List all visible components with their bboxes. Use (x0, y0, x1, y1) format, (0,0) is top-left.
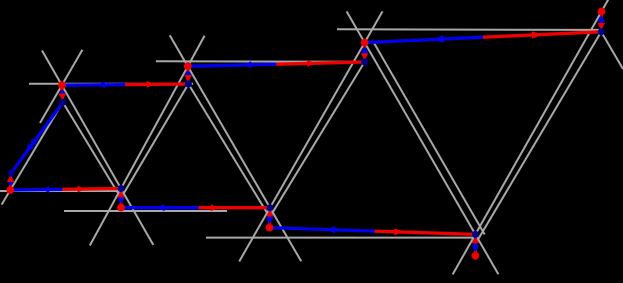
red arrowhead node2 (points at blue dot) (59, 93, 67, 100)
red arrow shaft node2 (red dot toward blue dot) (61, 85, 64, 93)
gray horizontal line node1-node3 (base of triangle 1-2-3) (0, 190, 121, 192)
node1 blue dot (8, 170, 15, 177)
red arrow shaft node7 (red dot toward blue dot) (474, 243, 477, 256)
wire edge node4-node6 red half (near end) (276, 62, 364, 64)
gray horizontal line node5-node7 (base of triangle 5-6-7) (206, 237, 478, 239)
node1 red dot (6, 186, 14, 194)
blue arrowhead node8 (points at red dot) (598, 15, 606, 22)
blue arrowhead on edge node1-node2 diagonal (points back) (25, 144, 34, 154)
red arrowhead node7 (points at blue dot) (472, 236, 480, 243)
node6 red dot (361, 39, 369, 47)
blue arrowhead node3 (points at red dot) (117, 197, 125, 204)
node5 red dot (266, 224, 274, 232)
gray line side 6-5 companion (node6 blue toward node5) (270, 62, 365, 217)
blue arrowhead node5 (points at red dot) (266, 217, 274, 224)
gray line side 2-3 companion (node2 blue toward node3) (63, 102, 121, 198)
blue arrow shaft node5 (blue dot toward red dot) (268, 208, 271, 218)
wire edge node4-node6 blue half (near start) (188, 64, 276, 66)
node2 blue dot (59, 99, 66, 106)
blue arrowhead node2 (points at red dot) (59, 89, 66, 96)
blue arrowhead on edge node6-node8 (points back) (433, 35, 444, 42)
wire edge node2-node4 blue half (near start) (62, 83, 125, 87)
gray line side 4-5 main (node4 red to node5 blue, stubs) (170, 35, 302, 261)
blue arrow shaft node8 (blue dot toward red dot) (600, 22, 603, 32)
blue arrow shaft node1 (blue dot toward red dot) (9, 173, 12, 179)
node7 red dot (472, 252, 480, 260)
red arrowhead on edge node6-node8 (points forward) (532, 31, 543, 38)
wire edge node5-node7 red half (near end) (375, 231, 476, 234)
red arrowhead on edge node2-node4 (points forward) (147, 81, 155, 88)
node2 red dot (58, 81, 66, 89)
gray line side 2-1 (node2 blue through node1 red, SW stub) (2, 102, 63, 204)
gray line side 4-5 companion (node4 blue toward node5) (188, 84, 269, 217)
red arrowhead node5 (points at blue dot) (266, 210, 274, 217)
gray line side 4-3 companion (node4 blue toward node3) (121, 84, 188, 198)
gray line side 6-7 companion (east of main) (374, 43, 485, 235)
node8 red dot (598, 8, 606, 16)
red arrowhead on edge node4-node6 (points forward) (307, 60, 316, 67)
gray line side 2-3 main (node2 red to node3 blue, stubs) (42, 51, 153, 245)
wire edge node5-node7 blue half (near start) (270, 228, 375, 232)
blue arrow shaft node7 (blue dot toward red dot) (474, 234, 477, 245)
red arrow shaft node5 (red dot toward blue dot) (268, 217, 271, 228)
red arrowhead node4 (points at blue dot) (184, 75, 192, 82)
blue arrow shaft node6 (blue dot toward red dot) (363, 53, 366, 62)
blue arrowhead node7 (points at red dot) (472, 245, 480, 252)
gray line side 4-3 main (node4 red to node3 blue, stubs) (90, 36, 205, 246)
red arrowhead on edge node5-node7 (points forward) (394, 228, 404, 235)
gray horizontal line node6-node8 (top of triangle 6-7-8) (337, 28, 601, 31)
blue arrowhead node1 (points at red dot) (7, 180, 15, 187)
node5 blue dot (267, 204, 274, 211)
gray horizontal line through node2/node4 (top of triangle 2-3-4) (29, 83, 193, 85)
blue arrowhead node4 (points at red dot) (184, 70, 192, 77)
blue arrowhead on edge node1-node2 diagonal (points forward) (30, 135, 39, 145)
gray horizontal line node4-node6 (top of triangle 4-5-6) (156, 60, 365, 63)
wire edge node3-node5 red half (near end) (199, 206, 271, 209)
blue arrowhead on edge node2-node4 (points back) (97, 81, 105, 88)
gray line side 8-7 companion (node8 blue toward node7) (475, 32, 601, 244)
red arrowhead node6 (points at blue dot) (361, 53, 369, 60)
gray line side 8-7 main (node8 red to node7 blue, stubs) (453, 0, 609, 274)
blue arrowhead on edge node1-node3 (points back) (42, 186, 49, 193)
red arrowhead on edge node1-node3 (points forward) (78, 186, 85, 193)
gray line side 8-9 (node8 blue toward offscreen, SE) (601, 32, 623, 69)
red arrow shaft node4 (red dot toward blue dot) (186, 66, 189, 75)
blue arrowhead on edge node3-node5 (points back) (156, 204, 164, 211)
node4 blue dot (185, 81, 192, 88)
node6 blue dot (361, 59, 368, 66)
blue arrow shaft node4 (blue dot toward red dot) (187, 77, 190, 84)
node8 blue dot (598, 28, 605, 35)
blue arrowhead on edge node4-node6 (points back) (242, 61, 251, 68)
wire edge node6-node8 blue half (near start) (365, 37, 483, 42)
gray line side 6-7 main (node6 red to node7 blue, stubs) (347, 11, 499, 274)
blue arrow shaft node3 (blue dot toward red dot) (120, 189, 123, 198)
red arrowhead on edge node3-node5 (points forward) (211, 204, 219, 211)
node4 red dot (184, 62, 192, 70)
red arrow shaft node6 (red dot toward blue dot) (363, 43, 366, 54)
wire edge node1-node3 blue half (near start) (10, 188, 62, 192)
gray horizontal line node3-node5 (base of triangle 3-4-5) (64, 210, 227, 212)
red arrow shaft node1 (red dot toward blue dot) (9, 182, 12, 190)
red arrow shaft node3 (red dot toward blue dot) (120, 197, 123, 207)
blue arrowhead on edge node5-node7 (points back) (325, 226, 335, 233)
gray line side 6-5 main (node6 red to node5 blue, stubs) (239, 11, 382, 261)
blue arrow shaft node2 (blue dot toward red dot) (61, 96, 64, 103)
wire edge node1-node3 red half (near end) (62, 187, 121, 191)
blue arrowhead node6 (points at red dot) (361, 46, 369, 53)
red arrowhead node8 (points at blue dot) (598, 23, 606, 30)
gray line side 1-2 (node1 blue to node2 red, upper part and NE stub) (40, 50, 82, 123)
wire edge node6-node8 red half (near end) (483, 32, 601, 37)
wire edge node3-node5 blue half (near start) (121, 206, 199, 209)
node3 blue dot (118, 185, 125, 192)
wire edge node1-node2 diagonal full blue shaft (11, 102, 63, 173)
red arrowhead node3 (points at blue dot) (117, 190, 125, 197)
red arrowhead node1 (points at blue dot) (7, 175, 15, 182)
red arrow shaft node8 (red dot toward blue dot) (600, 12, 603, 24)
node7 blue dot (472, 231, 479, 238)
node3 red dot (117, 204, 125, 212)
wire edge node2-node4 red half (near end) (125, 82, 188, 86)
